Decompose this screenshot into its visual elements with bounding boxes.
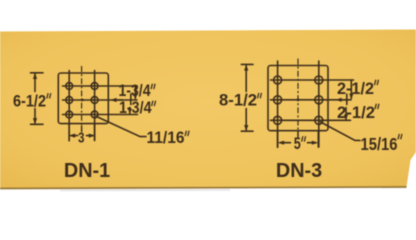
svg-text:2-1/2: 2-1/2: [337, 104, 375, 122]
right dim vertical row2-row3: [130, 94, 132, 105]
plate DN-1: [58, 73, 108, 124]
column centerline right: [94, 71, 96, 141]
prime 1-3/4 lower: [152, 101, 156, 105]
6-1/2 dimension line (broken for text): [34, 74, 36, 92]
bottom dim 5: extension stubs: [277, 131, 279, 147]
arrow left dim5: [278, 141, 284, 145]
6-1/2 dimension: extension stubs: [31, 72, 44, 74]
right dim vertical row1-row2: [134, 86, 136, 99]
arrow left on row2 DN-1: [110, 98, 116, 102]
center dot DN-1: [81, 99, 84, 102]
middle centerline (dashed): [81, 67, 83, 132]
arrow down row1-row2 DN-3: [349, 94, 353, 100]
svg-text:2-1/2: 2-1/2: [337, 80, 374, 98]
inch tick marks (double primes): [47, 80, 402, 141]
middle centerline (dashed): [297, 59, 299, 137]
arrow down 8-1/2 bottom: [244, 125, 248, 131]
bottom dim 5 arrow tails: [280, 142, 291, 144]
8-1/2 dimension line (broken for text): [245, 66, 247, 92]
prime 15/16: [398, 134, 402, 138]
row line 1: [271, 79, 354, 81]
center dot DN-3: [297, 98, 300, 101]
bottom dim 3 arrow tails: [71, 135, 78, 137]
arrow left dim3: [69, 134, 75, 138]
arrow right dim3: [89, 134, 95, 138]
svg-text:1-3/4: 1-3/4: [119, 82, 152, 100]
svg-text:3: 3: [78, 130, 85, 147]
svg-text:15/16: 15/16: [361, 134, 398, 154]
arrow down row1-row2 DN-1: [133, 94, 137, 100]
svg-text:1-3/4: 1-3/4: [119, 99, 152, 117]
prime 2-1/2 lower: [375, 104, 379, 108]
arrow up 8-1/2 top: [244, 64, 248, 70]
right dim vertical row1-row2: [350, 80, 352, 98]
svg-text:DN-1: DN-1: [64, 159, 110, 182]
prime 5: [302, 137, 306, 141]
yellow photo area: [0, 30, 416, 189]
prime 6-1/2: [47, 94, 51, 98]
arrow left on row2 DN-3: [336, 98, 342, 102]
holes DN-1: [66, 83, 73, 90]
leader 11/16: [97, 117, 147, 137]
arrow up 6-1/2 top: [33, 73, 37, 79]
svg-text:11/16: 11/16: [147, 129, 185, 147]
row line 3: [63, 114, 138, 116]
8-1/2 dimension: extension stubs: [241, 63, 253, 65]
leader 15/16: [321, 122, 361, 140]
column centerline left: [68, 71, 70, 141]
prime 8-1/2: [258, 93, 262, 97]
holes DN-3: [274, 76, 282, 84]
photo bottom edge line: [0, 187, 407, 189]
arrow right dim5: [312, 141, 318, 145]
svg-text:8-1/2: 8-1/2: [219, 91, 257, 109]
bottom dim 3: extension stubs: [68, 124, 70, 141]
right dim vertical row2-row3: [346, 94, 348, 105]
row line 2: [271, 99, 352, 101]
arrow down row2-row3 DN-3: [344, 115, 348, 120]
svg-text:DN-3: DN-3: [276, 159, 322, 182]
row line 1: [63, 85, 138, 87]
svg-text:5: 5: [294, 135, 301, 153]
prime 2-1/2 upper: [375, 80, 379, 84]
column centerline left: [277, 61, 279, 147]
arrowheads: [33, 64, 354, 144]
column centerline right: [318, 61, 320, 147]
row line 2: [63, 99, 138, 101]
prime 11/16: [185, 131, 189, 135]
prime 1-3/4 upper: [151, 84, 155, 88]
row line 3: [271, 119, 351, 121]
plate DN-3: [268, 66, 328, 131]
arrow down 6-1/2 bottom: [33, 118, 37, 124]
svg-text:6-1/2: 6-1/2: [13, 92, 46, 110]
arrow down row2-row3 DN-1: [128, 109, 132, 114]
